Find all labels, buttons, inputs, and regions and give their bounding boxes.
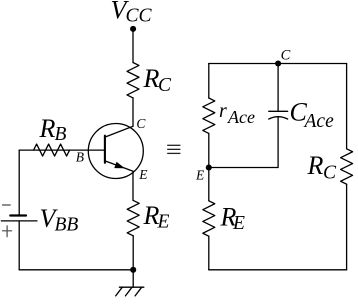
node C (right circuit) [275,60,281,66]
svg-text:E: E [232,213,245,234]
wire VCC to RC [132,28,134,62]
label V_BB [40,204,79,235]
battery plus sign [3,226,12,237]
wire capacitor to node E [209,117,278,168]
svg-text:E: E [157,212,170,233]
svg-text:r: r [219,100,227,122]
svg-text:C: C [158,75,172,96]
resistor RC (left) [127,63,139,98]
resistor RE (right) [203,201,215,236]
wire r_Ace to node E [208,133,210,167]
svg-text:B: B [76,149,84,164]
wire bottom (left circuit) [19,269,133,271]
resistor RC (right) [341,149,353,184]
resistor RE (left) [127,200,139,235]
wire RE to bottom (right circuit) [208,236,210,270]
battery VBB [1,216,37,221]
equivalence symbol [167,145,180,153]
wire battery to bottom [18,221,20,270]
node E (right circuit) [206,164,212,170]
label C_Ace [290,98,335,132]
label R_E (left) [143,201,170,232]
node junction (left bottom) [130,267,136,273]
svg-text:C: C [281,47,291,63]
resistor RB [34,144,70,156]
ground [116,270,144,296]
wire left branch top (right circuit) [208,64,210,99]
svg-text:R: R [39,114,56,143]
node VCC terminal [130,26,136,32]
svg-text:BB: BB [55,215,79,236]
svg-text:E: E [138,167,148,182]
svg-text:B: B [55,124,67,145]
wire RC to collector [132,98,134,126]
wire left branch to battery [18,150,20,215]
wire node E to RE [208,168,210,201]
wire bottom (right circuit) [209,269,347,271]
svg-text:CC: CC [126,6,153,27]
label R_C (right) [307,151,338,184]
label r_Ace [219,100,255,127]
svg-text:E: E [195,168,205,183]
capacitor C_Ace [269,64,288,120]
svg-text:C: C [323,163,337,184]
wire right branch top [346,64,348,149]
svg-text:R: R [143,64,160,93]
svg-text:R: R [307,151,324,180]
label V_CC [111,0,153,27]
transistor Q1 [88,124,143,179]
label R_E (right) [220,203,246,234]
wire base [19,149,105,151]
wire emitter to RE [132,171,134,200]
battery minus sign [3,204,11,206]
svg-text:Ace: Ace [227,107,255,127]
resistor r_Ace [203,98,215,133]
wire right branch bottom [346,184,348,270]
wire RE to node [132,236,134,270]
label R_B [39,114,67,145]
svg-text:Ace: Ace [303,111,335,132]
wire top (right circuit) [209,63,347,65]
svg-text:C: C [136,116,146,131]
label R_C [143,64,173,96]
